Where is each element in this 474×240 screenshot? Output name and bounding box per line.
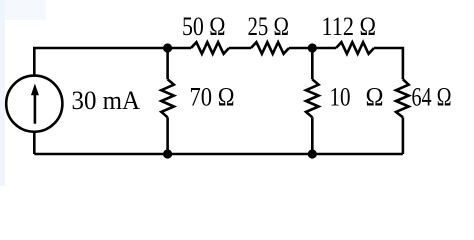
svg-text:30 mA: 30 mA <box>72 86 141 115</box>
resistor R1 50 ohm <box>191 42 229 54</box>
wire top: 25-ohm to node B <box>289 47 336 50</box>
node B top junction dot <box>308 43 317 52</box>
wire top-left: source top to node A <box>34 48 167 76</box>
resistor R3 112 ohm <box>336 42 374 54</box>
resistor R5 10 ohm <box>306 79 319 117</box>
wire node A branch lower <box>166 117 169 154</box>
svg-text:64 Ω: 64 Ω <box>412 82 452 111</box>
wire top: node A to 50-ohm resistor <box>168 47 191 50</box>
svg-text:25 Ω: 25 Ω <box>248 12 290 41</box>
svg-text:70 Ω: 70 Ω <box>190 83 235 112</box>
svg-text:Ω: Ω <box>366 82 384 111</box>
page background tint (left edge) <box>0 0 474 186</box>
wire bottom <box>34 153 403 156</box>
wire node B branch upper <box>311 48 314 79</box>
wire source bottom stub <box>33 132 36 154</box>
svg-text:112 Ω: 112 Ω <box>322 12 377 41</box>
current source I1 arrow <box>31 84 39 124</box>
wire right branch lower <box>402 117 405 154</box>
wire top: between 50-ohm and 25-ohm <box>229 47 251 50</box>
resistor R6 64 ohm (right branch) <box>396 79 409 117</box>
wire node A branch upper <box>166 48 169 79</box>
svg-text:10: 10 <box>330 82 351 111</box>
node B bottom junction dot <box>308 149 317 158</box>
wire top-right corner <box>374 48 403 79</box>
node A bottom junction dot <box>163 149 172 158</box>
current source I1 circle <box>6 76 62 132</box>
resistor R2 25 ohm <box>251 42 289 54</box>
svg-text:50 Ω: 50 Ω <box>182 12 226 41</box>
node A top junction dot <box>163 43 172 52</box>
resistor R4 70 ohm <box>161 79 174 117</box>
wire node B branch lower <box>311 117 314 154</box>
